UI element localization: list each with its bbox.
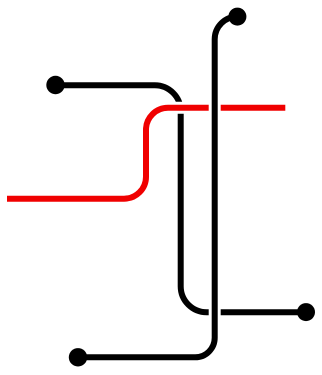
wire black line 1 (top-left dot to right dot) [56,85,307,312]
wire black line 2 (top dot to bottom-left dot) [78,17,237,358]
wire red line [7,108,285,199]
node terminal dot right [297,303,315,321]
node terminal dot bottom-left [69,348,87,366]
wire black line 2 casing (passes over red and black line 1) [78,17,237,358]
wire red casing (red passes over black line 1) [7,108,285,199]
node terminal dot top-left [46,76,64,94]
node terminal dot top [228,8,246,26]
